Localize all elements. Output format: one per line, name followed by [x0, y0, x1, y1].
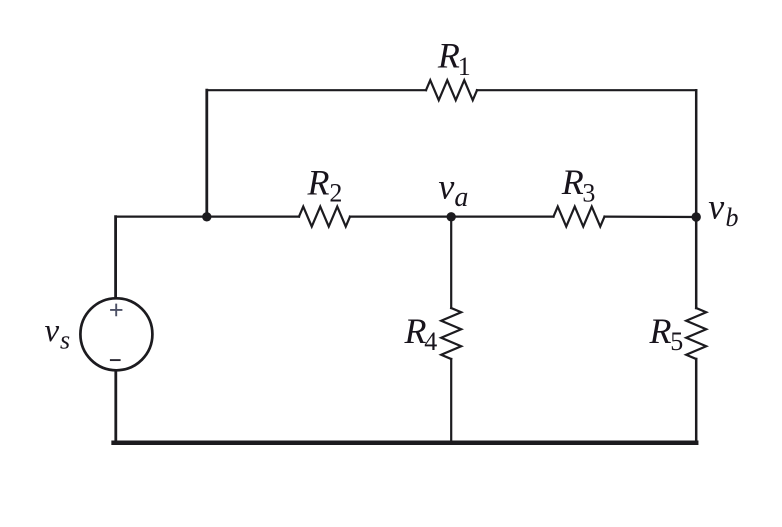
wire top rail left segment — [207, 89, 426, 91]
wire R4 to bottom rail — [450, 359, 452, 443]
resistor R4 — [441, 308, 461, 359]
voltage source vs — [80, 298, 152, 370]
svg-text:R: R — [649, 311, 672, 351]
node va — [447, 212, 456, 221]
svg-text:2: 2 — [329, 179, 342, 208]
resistor R2 — [299, 207, 350, 227]
wire R5 to bottom rail — [695, 359, 698, 443]
svg-text:R: R — [561, 162, 584, 202]
svg-text:1: 1 — [458, 52, 471, 81]
resistor R1 — [426, 80, 477, 100]
svg-text:R: R — [307, 162, 330, 202]
node vb — [692, 212, 701, 221]
svg-text:v: v — [438, 167, 454, 207]
svg-text:4: 4 — [424, 327, 437, 356]
wire left vertical lower (source - to bottom rail) — [114, 371, 117, 443]
wire right vertical (top rail to node vb) — [695, 90, 698, 217]
wire middle rail right segment — [605, 216, 697, 219]
svg-text:v: v — [708, 187, 724, 227]
svg-text:3: 3 — [582, 178, 595, 207]
+ polarity mark — [110, 304, 122, 317]
wire middle rail center segment — [350, 216, 554, 218]
svg-text:s: s — [60, 326, 70, 355]
svg-text:v: v — [45, 313, 60, 349]
wire top-left vertical (node to top rail) — [205, 90, 208, 216]
wire top rail right segment — [477, 89, 696, 91]
wire left vertical upper (middle rail to source +) — [114, 217, 117, 298]
svg-text:a: a — [454, 182, 468, 213]
wire node va down — [450, 217, 452, 308]
resistor R5 — [686, 308, 706, 359]
svg-text:R: R — [404, 311, 427, 351]
wire middle rail left segment — [116, 216, 299, 218]
- polarity mark — [110, 359, 121, 361]
svg-text:b: b — [726, 203, 739, 232]
resistor R3 — [554, 207, 605, 227]
wire node vb down to R5 — [695, 217, 698, 308]
node junction (left) — [202, 212, 211, 221]
wire bottom rail — [114, 440, 697, 445]
svg-text:5: 5 — [670, 327, 683, 356]
svg-text:R: R — [437, 36, 460, 76]
